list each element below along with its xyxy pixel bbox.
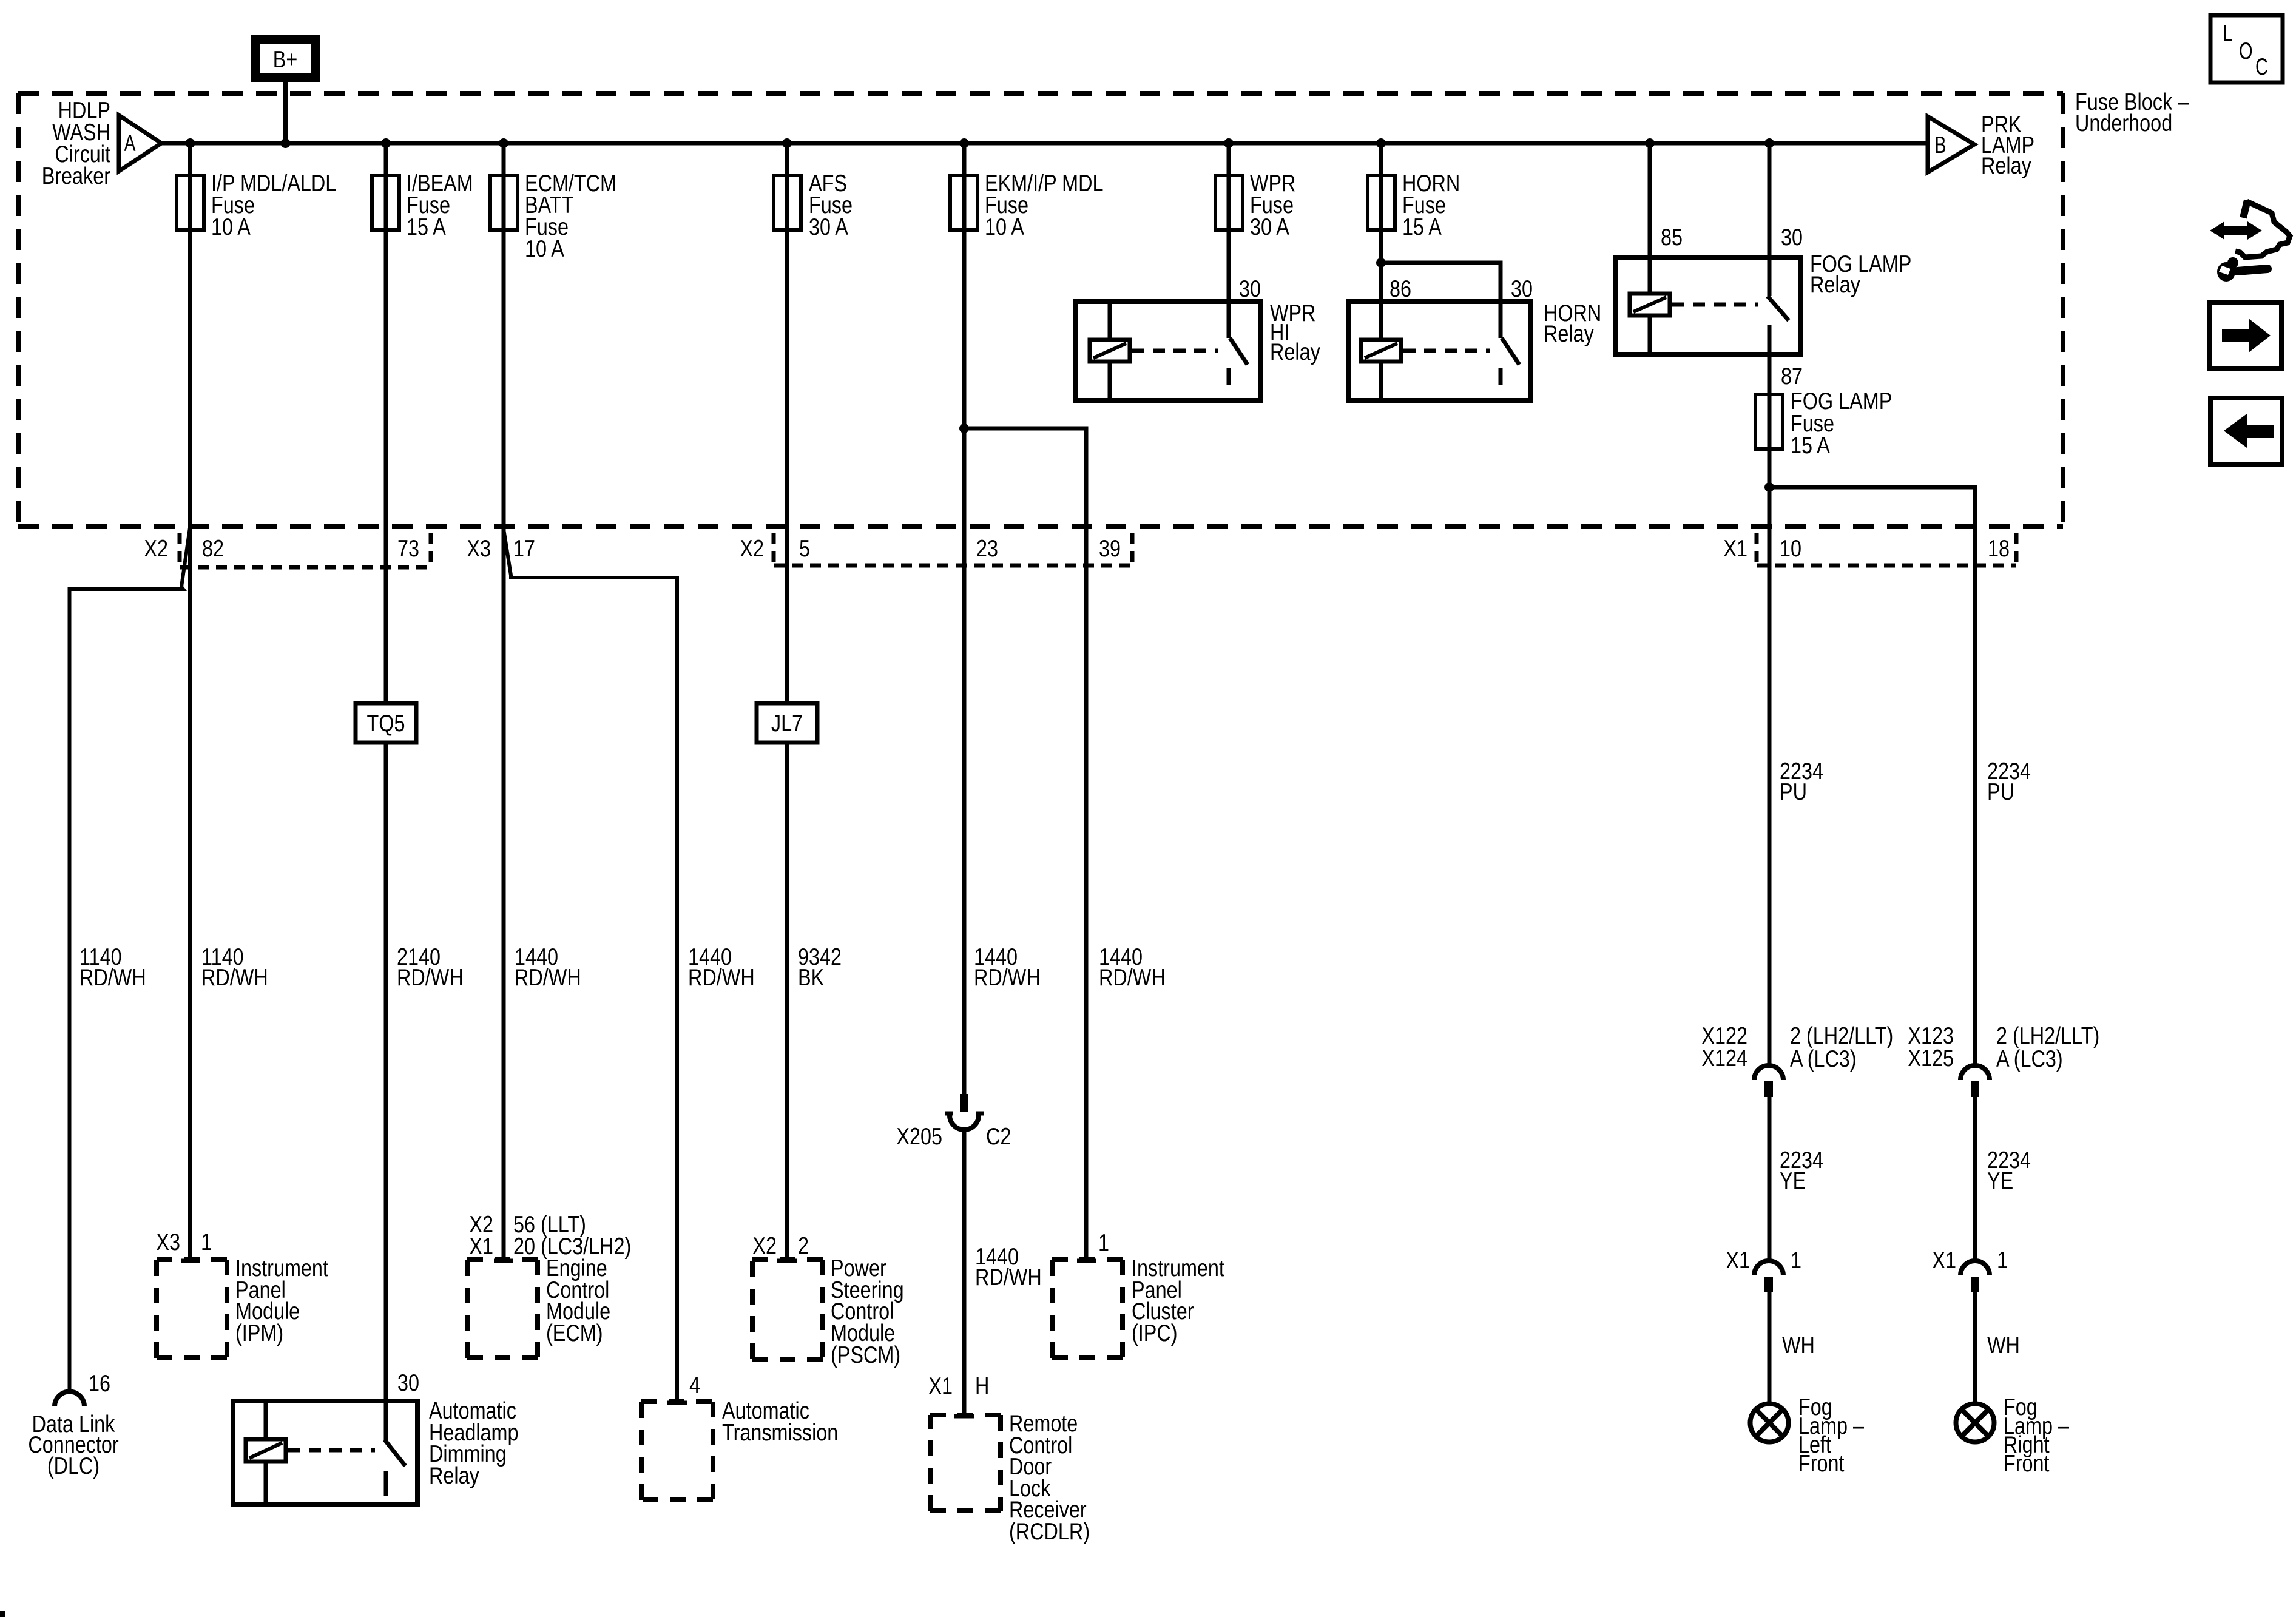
svg-text:A (LC3): A (LC3) — [1790, 1046, 1857, 1072]
svg-text:(PSCM): (PSCM) — [831, 1342, 900, 1368]
svg-text:16: 16 — [89, 1371, 110, 1397]
connector labels X1 10 18 — [1723, 536, 2010, 562]
svg-text:Relay: Relay — [429, 1463, 479, 1489]
module box PSCM — [752, 1260, 823, 1359]
svg-text:85: 85 — [1661, 224, 1683, 251]
junction bus / I-BEAM fuse — [381, 138, 391, 148]
pin X2 2 label PSCM — [752, 1233, 809, 1259]
svg-text:30: 30 — [1239, 276, 1261, 302]
svg-text:O: O — [2239, 38, 2253, 64]
svg-text:B: B — [1935, 132, 1947, 158]
junction bus / I-P MDL fuse — [186, 138, 195, 148]
svg-text:(IPM): (IPM) — [235, 1320, 283, 1346]
junction dot wire 23/39 split — [959, 424, 969, 433]
wire bus to EKM fuse down to X205 and RCDLR — [962, 143, 967, 1095]
svg-text:(IPC): (IPC) — [1132, 1320, 1178, 1346]
wire label 2234 YE right — [1987, 1147, 2031, 1194]
svg-text:PU: PU — [1780, 779, 1807, 805]
svg-text:30: 30 — [1511, 276, 1533, 302]
svg-text:82: 82 — [202, 536, 224, 562]
B+ power symbol — [255, 40, 316, 78]
svg-text:87: 87 — [1781, 363, 1803, 390]
svg-text:1: 1 — [201, 1229, 212, 1255]
svg-text:RD/WH: RD/WH — [397, 965, 464, 991]
connector strip X1 10/18 — [1757, 533, 2016, 565]
junction bus / EKM fuse — [959, 138, 969, 148]
svg-text:X125: X125 — [1908, 1045, 1954, 1072]
svg-text:RD/WH: RD/WH — [688, 965, 755, 991]
wire bus to AFS fuse down through JL7 to PSCM — [785, 143, 789, 703]
svg-text:30: 30 — [1781, 224, 1803, 251]
svg-text:Breaker: Breaker — [42, 163, 110, 189]
svg-text:15 A: 15 A — [407, 214, 446, 240]
svg-text:C2: C2 — [986, 1124, 1011, 1150]
svg-text:JL7: JL7 — [771, 711, 803, 737]
svg-text:BK: BK — [798, 965, 824, 991]
wire diagonal X2/82 branch to DLC — [70, 528, 191, 1393]
pin X3 1 label IPM — [156, 1229, 212, 1255]
JL7 option box — [757, 703, 817, 743]
pin T-bar RCDLR — [954, 1414, 974, 1419]
svg-text:17: 17 — [513, 536, 535, 562]
svg-text:4: 4 — [689, 1372, 700, 1399]
fuse block dashed border — [18, 93, 2063, 527]
svg-text:2 (LH2/LLT): 2 (LH2/LLT) — [1790, 1023, 1893, 1049]
svg-text:YE: YE — [1780, 1168, 1806, 1194]
svg-text:Relay: Relay — [1810, 272, 1860, 298]
fuse ECM/TCM BATT 10A — [490, 170, 616, 262]
wire X205 to RCDLR — [962, 1129, 967, 1416]
svg-text:15 A: 15 A — [1402, 214, 1442, 240]
junction bus / ECM-TCM fuse — [499, 138, 508, 148]
svg-text:10 A: 10 A — [985, 214, 1024, 240]
connector labels X2 5 23 39 — [740, 536, 1121, 562]
wire branch to pin 39 — [964, 428, 1086, 1261]
wire label 1440 RD/WH to RCDLR — [975, 1244, 1042, 1291]
svg-text:H: H — [975, 1373, 989, 1399]
fog lamp right front — [1956, 1394, 2070, 1477]
svg-text:PU: PU — [1987, 779, 2014, 805]
svg-text:X2: X2 — [740, 536, 764, 562]
svg-text:RD/WH: RD/WH — [1099, 965, 1166, 991]
junction bus / FOG relay pin 85 — [1645, 138, 1655, 148]
fuse HORN 15A — [1368, 170, 1460, 240]
wire labels row 1 — [79, 944, 146, 991]
junction dot below fog fuse — [1764, 482, 1774, 492]
svg-text:RD/WH: RD/WH — [515, 965, 581, 991]
wire label 2234 PU left — [1780, 758, 1823, 805]
svg-text:A: A — [124, 130, 136, 157]
pin X2 56 / X1 20 labels ECM — [469, 1212, 631, 1260]
label Engine Control Module (ECM) — [546, 1255, 610, 1346]
svg-text:X3: X3 — [467, 536, 491, 562]
svg-text:A (LC3): A (LC3) — [1996, 1046, 2063, 1072]
svg-text:X1: X1 — [1726, 1247, 1750, 1274]
svg-text:X205: X205 — [896, 1124, 942, 1150]
junction bus / HORN fuse — [1376, 138, 1386, 148]
svg-text:L: L — [2223, 21, 2232, 47]
module box RCDLR — [930, 1415, 1001, 1511]
connector strip X2 5/23/39 — [774, 533, 1132, 565]
wire label 2234 YE left — [1780, 1147, 1823, 1194]
wire bus to FOG LAMP relay pin 85 — [1648, 143, 1652, 294]
label Instrument Panel Module (IPM) — [235, 1255, 328, 1346]
wire bus to HORN fuse to HORN relay coil — [1379, 143, 1383, 340]
pin X1 H label RCDLR — [928, 1373, 989, 1399]
pin T-bar PSCM — [777, 1259, 797, 1263]
svg-text:Relay: Relay — [1544, 321, 1594, 347]
svg-text:1: 1 — [1098, 1230, 1109, 1256]
wire bus to WPR fuse to WPR HI relay — [1227, 143, 1231, 338]
svg-text:2: 2 — [798, 1233, 809, 1259]
PRK LAMP relay triangle B — [1928, 112, 2034, 179]
fuse FOG LAMP 15A — [1755, 388, 1892, 459]
svg-text:WH: WH — [1782, 1332, 1815, 1359]
svg-text:C: C — [2255, 54, 2268, 80]
module box IPC — [1052, 1260, 1123, 1358]
junction bus / WPR fuse — [1224, 138, 1234, 148]
TQ5 option box — [356, 703, 416, 743]
wire to right fog lamp — [1973, 1292, 1977, 1403]
svg-text:10 A: 10 A — [525, 236, 564, 262]
fuse I/BEAM 15A — [372, 170, 473, 240]
module box ECM — [467, 1260, 538, 1358]
LOC box top right — [2210, 15, 2283, 83]
svg-text:WH: WH — [1987, 1332, 2020, 1359]
fuse I/P MDL/ALDL 10A — [177, 170, 336, 240]
svg-text:X2: X2 — [144, 536, 168, 562]
svg-text:B+: B+ — [273, 47, 298, 73]
fog lamp left front — [1751, 1394, 1865, 1477]
svg-text:10 A: 10 A — [211, 214, 251, 240]
svg-text:RD/WH: RD/WH — [79, 965, 146, 991]
HORN relay — [1348, 276, 1601, 400]
connector labels X2 82 73 X3 17 — [144, 536, 535, 562]
svg-text:30 A: 30 A — [809, 214, 848, 240]
connector strip X2 82/73 — [180, 533, 431, 567]
label Automatic Transmission — [722, 1398, 838, 1446]
svg-text:Relay: Relay — [1981, 153, 2031, 179]
icon box arrow right — [2210, 302, 2281, 369]
svg-text:X1: X1 — [1932, 1247, 1956, 1274]
svg-text:18: 18 — [1988, 536, 2010, 562]
svg-text:86: 86 — [1389, 276, 1411, 302]
svg-text:30: 30 — [397, 1370, 419, 1396]
connector X205 C2 — [896, 1094, 1011, 1150]
connector X123/X125 right fog lamp — [1908, 1023, 2099, 1097]
svg-text:Front: Front — [2004, 1451, 2050, 1477]
svg-text:Underhood: Underhood — [2075, 110, 2172, 137]
wire diagonal X3/17 branch to automatic transmission — [504, 529, 677, 1402]
label Data Link Connector (DLC) — [28, 1411, 118, 1479]
svg-text:X1: X1 — [1723, 536, 1747, 562]
wire TQ5 down to dimming relay — [384, 743, 388, 1440]
label Instrument Panel Cluster (IPC) — [1132, 1255, 1224, 1346]
connector X1 1 right fog lamp — [1932, 1247, 2008, 1292]
svg-text:2 (LH2/LLT): 2 (LH2/LLT) — [1996, 1023, 2099, 1049]
svg-text:Front: Front — [1798, 1451, 1845, 1477]
connector X122/X124 left fog lamp — [1701, 1023, 1893, 1097]
wire branch to HORN relay pin 30 — [1381, 263, 1501, 338]
icon electrical service (arrow + fender + wrench) — [2210, 200, 2290, 282]
junction bus / FOG relay pin 30 — [1764, 138, 1774, 148]
wire X124 to X1 connector left — [1768, 1097, 1772, 1261]
svg-text:(DLC): (DLC) — [47, 1453, 100, 1479]
main bus wire — [160, 141, 1928, 146]
connector X1 1 left fog lamp — [1726, 1247, 1801, 1292]
icon box arrow left — [2210, 398, 2282, 465]
wire bus to I/BEAM fuse down to TQ5 — [384, 143, 388, 703]
svg-text:YE: YE — [1987, 1168, 2013, 1194]
svg-text:1: 1 — [1791, 1247, 1801, 1274]
wire to left fog lamp — [1768, 1292, 1772, 1403]
circuit breaker A triangle (HDLP WASH) — [119, 115, 161, 171]
wire label 2234 PU right — [1987, 758, 2031, 805]
wire branch to pin 18 right fog lamp — [1769, 487, 1975, 1066]
svg-text:X124: X124 — [1701, 1045, 1747, 1072]
junction bus / B+ feed — [281, 138, 291, 148]
junction dot below HORN fuse — [1376, 258, 1386, 268]
wire B+ to bus — [283, 82, 288, 143]
svg-text:39: 39 — [1099, 536, 1121, 562]
label HDLP WASH Circuit Breaker — [42, 98, 110, 189]
relay automatic headlamp dimming — [233, 1398, 519, 1504]
pin T-bar automatic transmission — [667, 1401, 687, 1405]
pin T-bar IPM — [181, 1259, 200, 1263]
FOG LAMP relay — [1616, 224, 1911, 354]
WPR HI relay — [1076, 276, 1320, 400]
svg-text:X1: X1 — [928, 1373, 953, 1399]
svg-text:1: 1 — [1997, 1247, 2008, 1274]
svg-text:10: 10 — [1780, 536, 1801, 562]
svg-text:RD/WH: RD/WH — [201, 965, 268, 991]
svg-text:X3: X3 — [156, 1229, 180, 1255]
svg-text:(RCDLR): (RCDLR) — [1009, 1519, 1090, 1545]
junction bus / AFS fuse — [782, 138, 792, 148]
fuse AFS 30A — [774, 170, 853, 240]
pin T-bar ECM — [494, 1259, 513, 1263]
svg-text:X1: X1 — [469, 1234, 493, 1260]
module box IPM — [157, 1260, 227, 1358]
svg-text:73: 73 — [397, 536, 419, 562]
svg-text:15 A: 15 A — [1791, 433, 1830, 459]
svg-text:X2: X2 — [752, 1233, 777, 1259]
svg-text:5: 5 — [799, 536, 810, 562]
wire bus to I/P MDL fuse to IPM — [188, 143, 192, 1261]
wire fog fuse down to left fog lamp connector — [1768, 449, 1772, 1066]
module box automatic transmission — [641, 1402, 713, 1500]
wire X125 to X1 connector right — [1973, 1097, 1977, 1261]
svg-text:Transmission: Transmission — [722, 1420, 838, 1446]
svg-text:Relay: Relay — [1270, 339, 1320, 365]
svg-text:23: 23 — [976, 536, 998, 562]
wire bus to ECM/TCM fuse to ECM — [502, 143, 506, 1261]
pin T-bar IPC — [1077, 1259, 1096, 1263]
svg-text:30 A: 30 A — [1250, 214, 1289, 240]
label Power Steering Control Module (PSCM) — [831, 1255, 904, 1368]
wire FOG relay pin 87 through fuse — [1768, 354, 1772, 452]
page mark bottom left — [0, 1611, 5, 1617]
svg-text:TQ5: TQ5 — [367, 711, 405, 737]
svg-text:(ECM): (ECM) — [546, 1320, 603, 1346]
svg-text:RD/WH: RD/WH — [975, 1264, 1042, 1291]
label Remote Control Door Lock Receiver (RCDLR) — [1009, 1411, 1090, 1545]
wire bus to FOG LAMP relay pin 30 — [1768, 143, 1772, 296]
fuse EKM/I/P MDL 10A — [950, 170, 1104, 240]
svg-text:RD/WH: RD/WH — [974, 965, 1041, 991]
fuse WPR 30A — [1215, 170, 1296, 240]
connector DLC dome — [55, 1392, 84, 1406]
fuse block label Fuse Block - Underhood — [2075, 89, 2189, 137]
